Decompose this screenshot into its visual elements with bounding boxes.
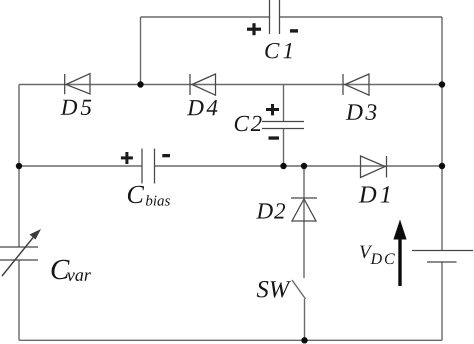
label D4 [187,100,217,115]
capacitor C2 [262,122,304,129]
capacitor Cbias [142,149,155,184]
wire C2 branch upper [283,85,285,122]
junction node D5/D4 top [137,81,143,87]
wire top right segment [280,16,443,18]
diode D2 [291,198,317,221]
wire left column upper [18,85,20,248]
label C1 plus [247,23,261,35]
label Cvar [52,260,91,281]
wire C2 branch lower [283,129,285,167]
label C2 plus [266,104,279,115]
junction node right top [439,81,445,87]
wire right column lower [441,262,443,340]
wire diode row [19,84,442,86]
junction node D2 top [301,163,307,169]
junction node left middle [16,163,22,169]
label D5 [61,100,92,115]
wire right column upper [441,17,443,251]
capacitor Cvar [0,247,38,260]
wire top-left vertical drop [140,17,142,85]
diode D3 [343,74,369,95]
label VDC [360,246,395,265]
wire middle row right of Cbias [155,165,443,167]
diode D1 [361,156,387,178]
label C2 minus [269,136,280,139]
arrow of VDC [393,220,406,287]
switch SW blade [292,280,306,299]
junction node C2 bottom [280,163,286,169]
wire middle row left of Cbias [19,165,142,167]
label C1 minus [290,29,298,32]
wire below switch [304,299,306,340]
wire top left segment [141,16,270,18]
junction node bottom [301,337,307,343]
wire left column lower [18,260,20,340]
label D2 [256,203,285,218]
label D1 [359,186,390,202]
label C1 [265,43,291,58]
label C2 [235,116,262,131]
battery VDC [412,251,473,263]
wire D2 branch [303,166,305,278]
arrow of Cvar [2,229,41,276]
label Cbias plus [121,152,133,164]
capacitor C1 [270,0,280,34]
label Cbias minus [162,154,170,157]
label D3 [346,104,377,120]
diode D5 [65,74,90,95]
wire bottom row [19,339,442,341]
diode D4 [190,74,216,95]
label SW [257,281,291,298]
label Cbias [128,186,170,206]
junction node right middle [439,163,445,169]
